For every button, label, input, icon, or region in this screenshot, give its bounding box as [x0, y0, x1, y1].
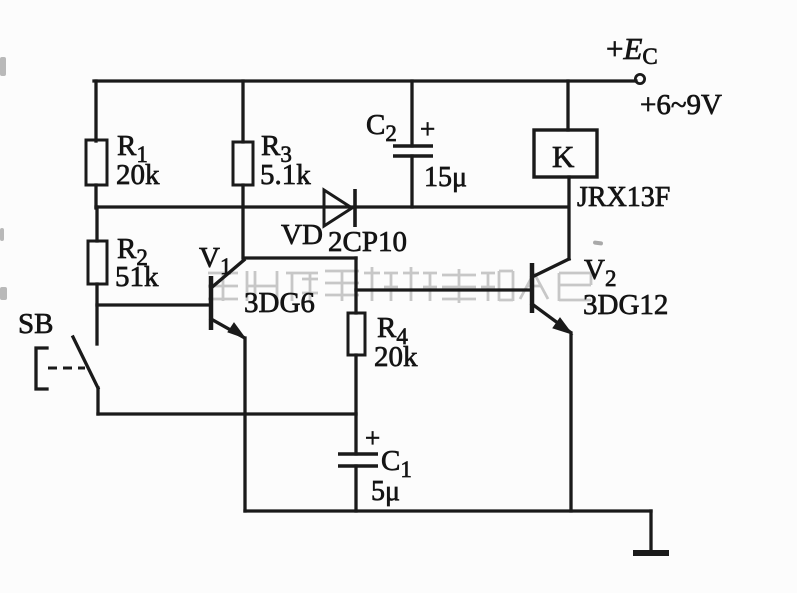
wire V2 base wire: [356, 288, 532, 291]
wire switch rail: [98, 412, 356, 415]
svg-text:+6~9V: +6~9V: [640, 89, 722, 121]
svg-text:20k: 20k: [116, 159, 160, 191]
ground: [633, 511, 669, 553]
wire relay K bottom to V2 collector: [567, 177, 570, 259]
svg-text:+: +: [420, 114, 435, 144]
wire R3 bottom through rail2 to V1 collector corner: [241, 185, 244, 258]
wire V2 emitter down to bottom rail: [569, 333, 572, 511]
svg-text:5μ: 5μ: [371, 476, 400, 507]
wire C2 bottom to rail2: [410, 156, 413, 207]
svg-text:20k: 20k: [374, 341, 418, 373]
svg-text:K: K: [552, 139, 575, 174]
pushbutton SB: [36, 337, 98, 389]
transistor V1: [211, 260, 245, 338]
svg-text:VD: VD: [281, 219, 323, 251]
resistor R3: [233, 142, 253, 185]
wire V1 emitter down to bottom rail: [243, 338, 246, 511]
wire left branch from rail to R1: [94, 81, 97, 141]
diode VD: [324, 189, 355, 227]
svg-text:15μ: 15μ: [424, 162, 467, 193]
svg-text:2CP10: 2CP10: [328, 226, 407, 258]
svg-text:3DG6: 3DG6: [244, 287, 315, 319]
svg-text:SB: SB: [18, 308, 53, 340]
wire rail to R3: [241, 81, 244, 142]
resistor R2: [88, 241, 107, 284]
svg-text:JRX13F: JRX13F: [577, 182, 670, 213]
svg-text:3DG12: 3DG12: [583, 289, 668, 321]
svg-text:51k: 51k: [115, 261, 159, 293]
resistor R1: [86, 140, 107, 185]
wire switch to bottom row: [96, 388, 99, 414]
resistor R4: [348, 313, 365, 355]
svg-text:+: +: [365, 423, 380, 453]
wire rail to relay K: [566, 81, 569, 130]
capacitor C2: [393, 146, 433, 156]
wire bottom rail: [245, 509, 651, 512]
wire R1 bottom to rail2: [94, 185, 97, 208]
wire top supply rail: [94, 79, 636, 82]
wire rail2 to R2: [95, 207, 98, 241]
node +Ec terminal: [635, 74, 644, 83]
svg-text:V1: V1: [199, 242, 231, 279]
wire V1 collector horizontal to R4 column: [244, 256, 356, 259]
svg-text:5.1k: 5.1k: [260, 159, 311, 191]
wire R4 column top: [354, 258, 357, 313]
svg-text:+EC: +EC: [606, 31, 658, 69]
transistor V2: [532, 259, 572, 334]
wire R4 bottom to C1: [354, 355, 357, 454]
wire V1 base wire: [97, 303, 211, 306]
wire R2 bottom to switch contact: [95, 284, 98, 344]
relay K: [534, 130, 597, 177]
wire C1 bottom to rail: [354, 466, 357, 511]
wire second rail: [96, 205, 568, 208]
wire rail to C2: [410, 81, 413, 146]
svg-text:V2: V2: [584, 254, 616, 291]
capacitor C1: [338, 454, 378, 466]
svg-text:C2: C2: [366, 109, 397, 146]
